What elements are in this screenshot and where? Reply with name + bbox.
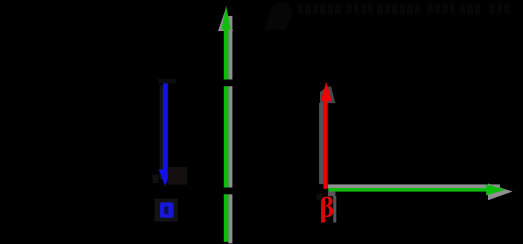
- ghost arrow R1' (gray twin of red arrow) : head: [320, 86, 335, 103]
- arrow G2 : head: [486, 184, 505, 195]
- ghost arrow B1' (dark twin of blue arrow) : shaft: [160, 86, 163, 180]
- ghost arrow G2' (gray twin of green horizontal axis) : shaft: [328, 184, 500, 188]
- arrow R1 : shaft: [323, 99, 327, 189]
- ghost arrow G2' : head: [488, 184, 513, 201]
- faint mark M3 (left of beta label): [317, 194, 324, 201]
- arrow B1 (blue arrow, points down) : shaft: [163, 83, 168, 170]
- faint title text glyph (script letter, top): [264, 2, 293, 30]
- arrow G2 (green horizontal axis) : shaft: [328, 188, 489, 192]
- faint mark M1 (right of blue head): [168, 167, 188, 185]
- label box D1 (dark ghost square behind blue label): [155, 199, 178, 222]
- ghost arrow G1' (gray twin of green vertical axis) : head: [218, 10, 233, 32]
- node O' (gray origin square ghost): [328, 192, 336, 197]
- wire H2 (black horizontal line crossing, lower): [214, 188, 238, 195]
- faint mark M2 (left of blue head): [153, 175, 159, 183]
- arrow R1 (red arrow, points up) : head: [321, 82, 332, 101]
- wire H1 (black horizontal line crossing, upper): [214, 80, 238, 87]
- ghost label beta' (gray strip, twin of beta): [333, 196, 336, 223]
- arrow B1 : head: [159, 169, 172, 186]
- svg-text:β: β: [320, 193, 335, 224]
- ghost arrow R1' : shaft: [319, 103, 323, 184]
- label B0 counter (dark slit inside 0): [164, 207, 168, 215]
- arrow G1 : shaft: [224, 27, 229, 242]
- arrow G1 (green vertical axis) : head: [221, 6, 230, 30]
- faint title text row (top): [298, 4, 510, 15]
- label B0 (blue glyph 0): [160, 202, 174, 217]
- node L1 (faint black line stub above blue arrow): [158, 79, 176, 84]
- ghost arrow G1' : shaft: [228, 16, 232, 243]
